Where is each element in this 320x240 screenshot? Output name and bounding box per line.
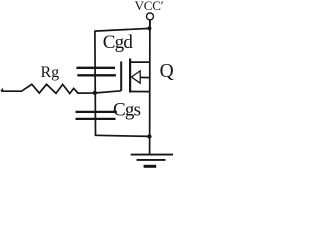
node bottom junction — [147, 134, 151, 138]
wire left vertical rail — [94, 31, 97, 136]
svg-text:Q: Q — [160, 61, 174, 82]
capacitor Cgd bottom plate — [77, 74, 116, 76]
svg-text:Cgd: Cgd — [103, 32, 134, 53]
wire top horizontal — [95, 28, 150, 31]
capacitor Cgs top plate — [76, 111, 117, 113]
node top junction — [147, 26, 151, 30]
VCC terminal circle — [147, 13, 154, 20]
transistor Q1 gate bar — [120, 61, 122, 91]
transistor Q1 source stub — [130, 91, 150, 93]
wire bottom horizontal — [95, 135, 150, 136]
transistor Q1 body arrow — [131, 71, 140, 83]
node gate junction — [93, 91, 97, 95]
ground bar 2 — [137, 159, 166, 161]
resistor Rg zigzag with input lead and wire to gate — [1, 84, 121, 93]
capacitor Cgd top plate — [76, 67, 115, 69]
svg-text:Rg: Rg — [41, 64, 60, 81]
ground bar 1 — [131, 154, 173, 156]
wire VCC circle to top junction — [149, 20, 151, 28]
transistor Q1 drain stub — [130, 61, 150, 63]
svg-text:Cgs: Cgs — [113, 100, 141, 121]
ground bar 3 — [144, 165, 157, 168]
svg-text:VCC′: VCC′ — [135, 0, 164, 13]
wire right vertical rail — [149, 20, 151, 154]
transistor Q1 channel bar — [129, 59, 131, 93]
capacitor Cgs bottom plate — [76, 118, 116, 120]
transistor Q1 body stub — [140, 76, 150, 78]
